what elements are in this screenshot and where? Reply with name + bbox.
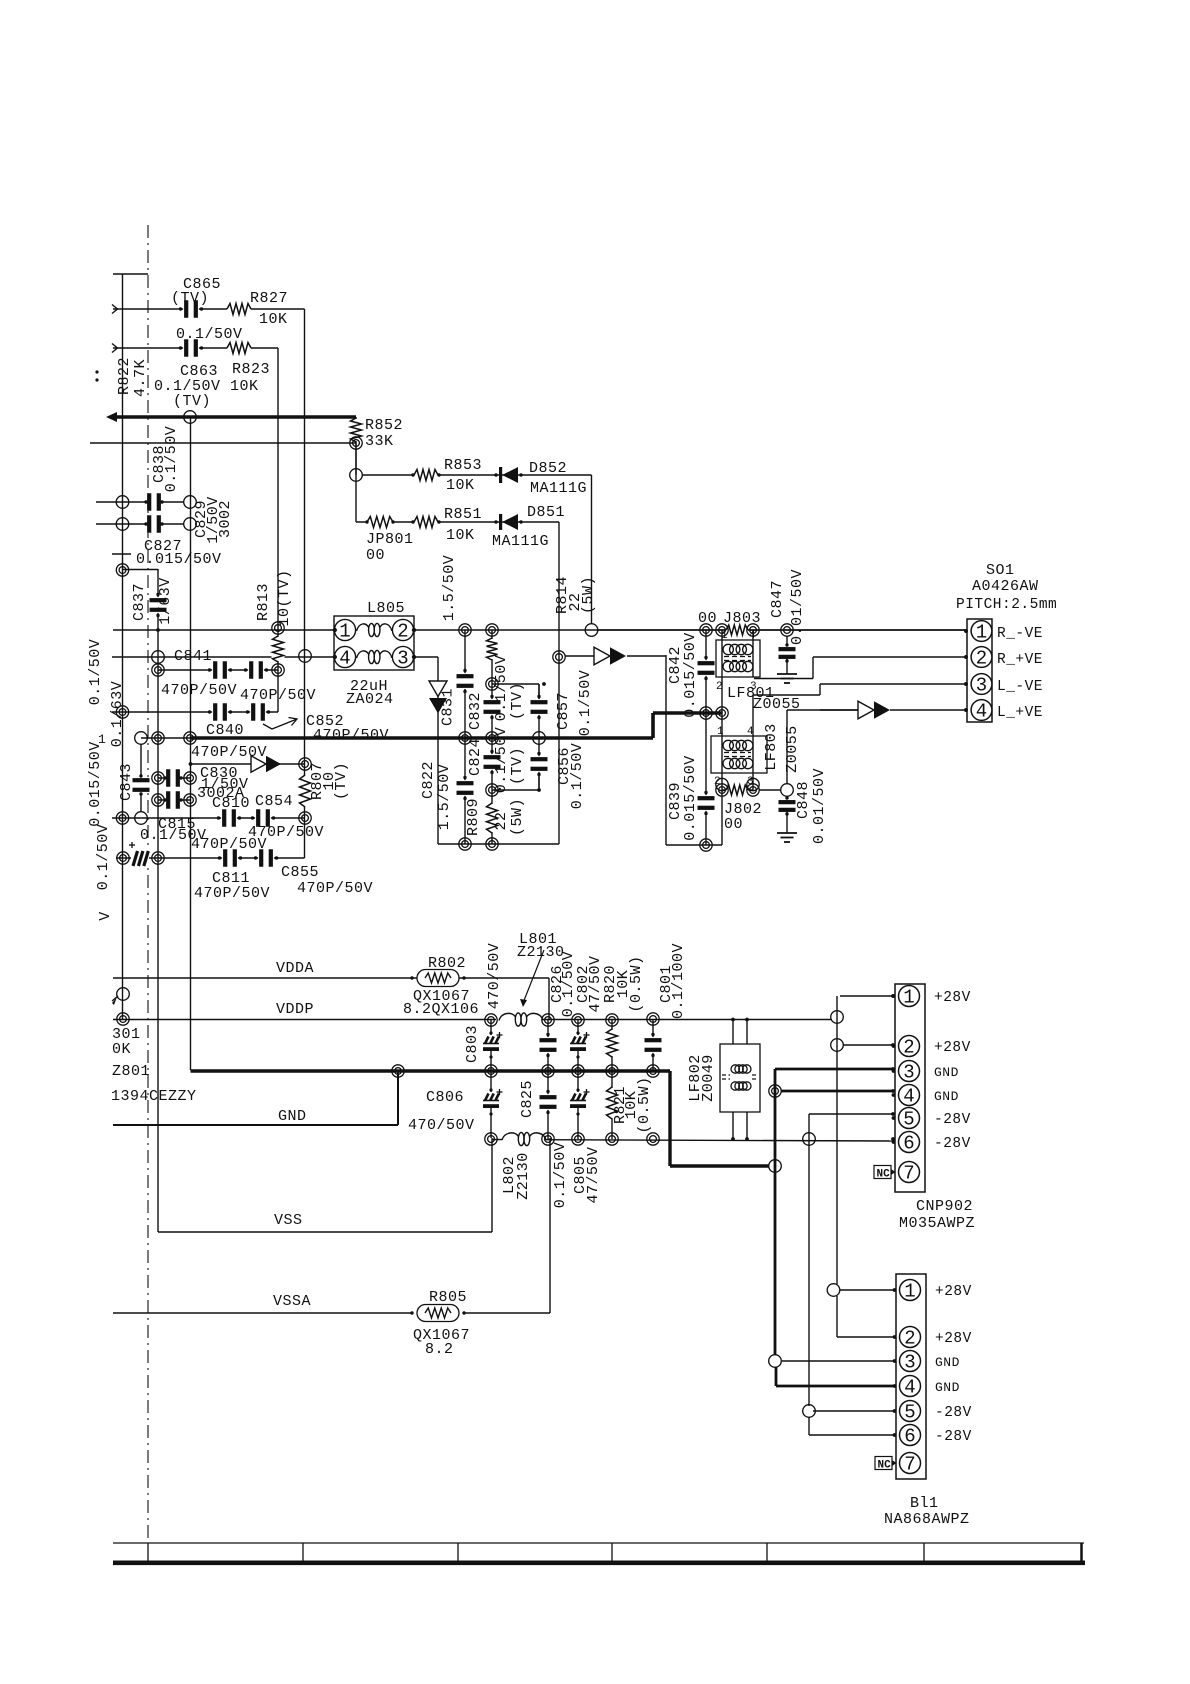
svg-text:L_-VE: L_-VE [997,679,1043,695]
svg-text:3: 3 [750,681,757,693]
svg-text:2: 2 [976,648,987,670]
svg-text:6: 6 [904,1426,915,1448]
svg-text:CNP902: CNP902 [916,1198,973,1215]
svg-text:Z2130: Z2130 [517,944,565,961]
svg-text:R822: R822 [116,357,133,395]
svg-text:NC: NC [878,1460,892,1472]
svg-text:V: V [97,911,114,921]
svg-text:8.2: 8.2 [425,1341,454,1358]
svg-text:PITCH:2.5mm: PITCH:2.5mm [956,597,1057,613]
svg-text:0.1/50V: 0.1/50V [493,655,510,722]
svg-text:+28V: +28V [935,1284,972,1300]
svg-text:1: 1 [717,726,724,738]
svg-text:4: 4 [903,1086,914,1108]
svg-text:R827: R827 [250,290,288,307]
svg-text:0.1/63V: 0.1/63V [109,681,126,748]
svg-text:R805: R805 [429,1289,467,1306]
svg-text:0.1/100V: 0.1/100V [670,943,687,1019]
svg-text:GND: GND [934,1065,959,1080]
svg-text:+28V: +28V [935,1331,972,1347]
svg-text:Z801: Z801 [112,1063,150,1080]
svg-text:R_+VE: R_+VE [997,652,1043,668]
svg-text:+28V: +28V [934,990,971,1006]
svg-text:NC: NC [877,1169,891,1181]
svg-text:GND: GND [935,1355,960,1370]
svg-text:Z0055: Z0055 [784,725,801,773]
svg-text:10K: 10K [446,477,475,494]
svg-text:C810: C810 [212,795,250,812]
svg-text:C822: C822 [420,761,437,799]
svg-text:2: 2 [903,1037,914,1059]
svg-text:VSSA: VSSA [273,1293,311,1310]
svg-text:10K: 10K [446,527,475,544]
svg-text:0.015/50V: 0.015/50V [87,741,104,827]
svg-text:4: 4 [749,630,756,642]
svg-text:1: 1 [339,621,350,643]
svg-text:470P/50V: 470P/50V [194,885,270,902]
svg-text:VDDA: VDDA [276,960,314,977]
svg-text:C857: C857 [555,692,572,730]
svg-text:1: 1 [903,987,914,1009]
svg-text:1394CEZZY: 1394CEZZY [111,1088,197,1105]
svg-text:R_-VE: R_-VE [997,626,1043,642]
svg-text:470P/50V: 470P/50V [297,880,373,897]
svg-text:00: 00 [366,547,385,564]
svg-text:0.1/50V: 0.1/50V [87,639,104,706]
svg-text:10K: 10K [259,311,288,328]
svg-text:3: 3 [976,675,987,697]
svg-text:470/50V: 470/50V [408,1117,475,1134]
svg-text:3002: 3002 [217,500,234,538]
svg-text:C803: C803 [464,1025,481,1063]
svg-text:C831: C831 [440,688,457,726]
svg-text:NA868AWPZ: NA868AWPZ [884,1511,970,1528]
svg-text:GND: GND [935,1380,960,1395]
svg-text:-28V: -28V [934,1136,971,1152]
svg-text:4: 4 [904,1377,915,1399]
svg-text:C840: C840 [206,722,244,739]
svg-text:0.015/50V: 0.015/50V [682,755,699,841]
svg-text:(TV): (TV) [333,762,350,800]
svg-text:7: 7 [904,1454,915,1476]
svg-text:1/63V: 1/63V [157,577,174,625]
svg-text:470/50V: 470/50V [486,943,503,1010]
svg-text:2: 2 [904,1328,915,1350]
svg-text:7: 7 [903,1163,914,1185]
svg-text:R823: R823 [232,361,270,378]
svg-text:C855: C855 [281,864,319,881]
svg-text:+28V: +28V [934,1040,971,1056]
svg-text:ZA024: ZA024 [346,691,394,708]
svg-text:5: 5 [904,1402,915,1424]
svg-text:33K: 33K [365,433,394,450]
svg-text:L_+VE: L_+VE [997,705,1043,721]
svg-text:0K: 0K [112,1041,131,1058]
svg-text:(TV): (TV) [173,393,211,410]
svg-text:0.015/50V: 0.015/50V [682,632,699,718]
svg-text:4: 4 [976,701,987,723]
svg-text:470P/50V: 470P/50V [161,682,237,699]
svg-text:GND: GND [278,1108,307,1125]
svg-text:A0426AW: A0426AW [972,578,1039,595]
svg-text:4: 4 [339,648,350,670]
svg-text:Z2130: Z2130 [515,1152,532,1200]
svg-text:LF803: LF803 [763,723,780,771]
svg-text:22: 22 [493,811,510,830]
svg-text:0.1/50V: 0.1/50V [493,727,510,794]
svg-text:2: 2 [716,681,723,693]
svg-text:4: 4 [747,726,754,738]
svg-text:R851: R851 [444,506,482,523]
svg-text:470P/50V: 470P/50V [313,727,389,744]
svg-text:3: 3 [747,776,754,788]
svg-text:C847: C847 [769,580,786,618]
svg-text:C806: C806 [426,1089,464,1106]
svg-text:0.01/50V: 0.01/50V [811,768,828,844]
svg-text:R853: R853 [444,457,482,474]
svg-text:(0.5W): (0.5W) [628,955,645,1012]
svg-text:C837: C837 [131,583,148,621]
svg-text:8.2QX106: 8.2QX106 [403,1001,479,1018]
svg-text:10(TV): 10(TV) [276,569,293,626]
svg-text:D852: D852 [529,460,567,477]
svg-text:1: 1 [904,1281,915,1303]
svg-text:L805: L805 [367,600,405,617]
svg-text:MA111G: MA111G [492,533,549,550]
svg-text:1.5/50V: 1.5/50V [441,555,458,622]
svg-text:-28V: -28V [935,1429,972,1445]
svg-text:-28V: -28V [935,1405,972,1421]
svg-text:0.1/50V: 0.1/50V [95,824,112,891]
svg-text:J803: J803 [723,610,761,627]
svg-text:C825: C825 [519,1080,536,1118]
svg-text:0.015/50V: 0.015/50V [136,551,222,568]
svg-text:R852: R852 [365,417,403,434]
svg-text:1: 1 [976,622,987,644]
svg-text:(TV): (TV) [509,682,526,720]
svg-text:6: 6 [903,1133,914,1155]
svg-text:0.1/50V: 0.1/50V [552,1142,569,1209]
svg-text:R802: R802 [428,955,466,972]
svg-text:1: 1 [721,630,728,642]
svg-text:(5W): (5W) [509,798,526,836]
svg-text:3: 3 [397,648,408,670]
svg-text:C841: C841 [174,648,212,665]
svg-text:VSS: VSS [274,1212,303,1229]
svg-text:0.1/50V: 0.1/50V [163,426,180,493]
svg-text:2: 2 [397,621,408,643]
svg-text:47/50V: 47/50V [585,1146,602,1203]
svg-text:Z0055: Z0055 [753,696,801,713]
svg-text:Bl1: Bl1 [910,1495,939,1512]
svg-text:00: 00 [724,816,743,833]
svg-text:R813: R813 [255,583,272,621]
svg-text:MA111G: MA111G [530,480,587,497]
svg-text:-28V: -28V [934,1112,971,1128]
svg-text:0.1/50V: 0.1/50V [577,670,594,737]
svg-text:1.5/50V: 1.5/50V [436,764,453,831]
svg-text:2: 2 [714,776,721,788]
svg-text:0.1/50V: 0.1/50V [176,326,243,343]
svg-text:(0.5W): (0.5W) [636,1076,653,1133]
svg-text:0.01/50V: 0.01/50V [789,569,806,645]
svg-text:3: 3 [904,1352,915,1374]
svg-text:C854: C854 [255,793,293,810]
svg-text:470P/50V: 470P/50V [240,687,316,704]
svg-text:(TV): (TV) [171,290,209,307]
svg-text:3: 3 [903,1062,914,1084]
svg-text:VDDP: VDDP [276,1001,314,1018]
svg-text:C843: C843 [118,763,135,801]
svg-text:M035AWPZ: M035AWPZ [899,1215,975,1232]
svg-text:470P/50V: 470P/50V [191,744,267,761]
svg-text:D851: D851 [527,504,565,521]
svg-text:0.1/50V: 0.1/50V [569,743,586,810]
svg-text:00: 00 [698,610,717,627]
svg-text:R809: R809 [465,798,482,836]
svg-text:SO1: SO1 [986,562,1015,579]
svg-text:4.7K: 4.7K [132,359,149,397]
svg-text:Z0049: Z0049 [700,1054,717,1102]
svg-text:5: 5 [903,1109,914,1131]
svg-text:C848: C848 [795,781,812,819]
svg-text:470P/50V: 470P/50V [191,836,267,853]
svg-text:C832: C832 [467,692,484,730]
svg-text:(TV): (TV) [509,747,526,785]
svg-text:JP801: JP801 [366,531,414,548]
svg-text:C824: C824 [467,738,484,776]
svg-text:GND: GND [934,1089,959,1104]
svg-text:(5W): (5W) [580,576,597,614]
